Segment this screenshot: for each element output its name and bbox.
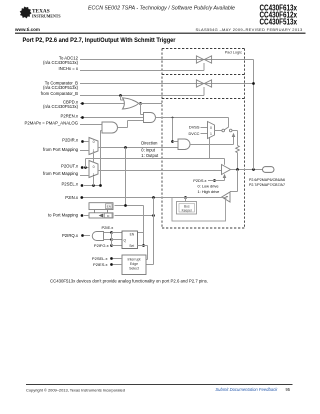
- svg-text:Submit Documentation Feedback: Submit Documentation Feedback: [215, 387, 278, 392]
